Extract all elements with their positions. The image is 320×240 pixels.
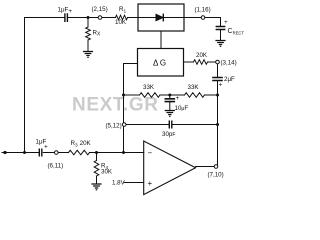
ground below RX: [84, 52, 93, 58]
input terminal: [3, 151, 6, 154]
junction R4 tap: [95, 151, 98, 154]
svg-text:33K: 33K: [143, 84, 155, 91]
svg-text:20K: 20K: [196, 52, 208, 59]
svg-text:33K: 33K: [188, 84, 200, 91]
node (2,15): [98, 16, 102, 20]
node (1,16): [201, 16, 205, 20]
junction left rail input: [23, 151, 26, 154]
wire 33K feedback: [124, 94, 218, 96]
wire top horizontal: [25, 17, 139, 19]
svg-text:(5,12): (5,12): [106, 123, 122, 130]
resistor 20K: [194, 60, 208, 65]
ground below R4: [92, 184, 101, 190]
wire right rail: [217, 64, 219, 165]
junction RX tap: [87, 16, 90, 19]
svg-text:NEXT.GR: NEXT.GR: [72, 95, 159, 116]
node (6,11): [55, 151, 59, 155]
wire op-amp output: [196, 166, 215, 168]
capacitor C4 1uF input: [39, 149, 42, 156]
svg-text:30pF: 30pF: [162, 131, 175, 138]
svg-text:RX: RX: [93, 30, 101, 38]
svg-text:2μF: 2μF: [224, 76, 235, 83]
wire deltaG right: [184, 61, 216, 63]
capacitor C1 1uF top: [65, 14, 68, 21]
svg-text:10μF: 10μF: [175, 105, 189, 112]
svg-text:+: +: [148, 179, 153, 188]
svg-text:30K: 30K: [101, 169, 113, 176]
svg-text:(3,14): (3,14): [221, 60, 237, 67]
wire 1.8V to plus input: [124, 182, 144, 184]
svg-text:−: −: [148, 149, 153, 158]
svg-text:+: +: [219, 82, 223, 89]
wire input bottom: [2, 152, 144, 154]
wire (1,16) top right: [184, 18, 221, 26]
capacitor C2 2uF: [213, 78, 222, 81]
resistor 33K b: [185, 93, 205, 98]
block deltaG U1: [138, 49, 184, 77]
node (7,10): [214, 165, 218, 169]
resistor R4 30K: [94, 153, 99, 184]
svg-text:+: +: [224, 19, 228, 26]
op-amp U2: [144, 141, 196, 195]
svg-text:ΔG: ΔG: [153, 59, 166, 68]
capacitor C3 10uF: [169, 95, 171, 98]
wire (5,12) comp: [126, 124, 218, 126]
ground below C RECT: [216, 41, 225, 47]
resistor 33K a: [140, 93, 161, 98]
capacitor C RECT: [216, 27, 224, 30]
junction mid rail 33K: [122, 94, 125, 97]
svg-text:1.8V: 1.8V: [112, 180, 126, 187]
svg-text:+: +: [176, 95, 180, 102]
svg-text:+: +: [44, 144, 48, 151]
svg-text:(7,10): (7,10): [208, 172, 224, 179]
svg-text:(1,16): (1,16): [195, 7, 211, 14]
ground below 10uF: [165, 111, 174, 117]
capacitor 30pF: [169, 121, 172, 128]
diode box D1: [138, 4, 184, 31]
junction mid rail minus wire: [122, 151, 125, 154]
wire left rail: [24, 18, 26, 153]
resistor R3 20K: [69, 150, 90, 155]
svg-text:10K: 10K: [115, 19, 127, 26]
node (5,12): [122, 123, 126, 127]
resistor R1 10K: [116, 15, 128, 20]
junction 10uF tap: [168, 94, 171, 97]
svg-text:(6,11): (6,11): [48, 163, 64, 170]
wire deltaG left to mid rail: [124, 64, 138, 153]
svg-text:(2,15): (2,15): [92, 6, 108, 13]
diode D1: [138, 17, 184, 19]
resistor RX: [86, 18, 91, 52]
wire box to deltaG: [160, 31, 162, 49]
node (3,14): [216, 60, 220, 64]
junction 30pF right rail: [216, 123, 219, 126]
junction 33K right rail: [216, 94, 219, 97]
